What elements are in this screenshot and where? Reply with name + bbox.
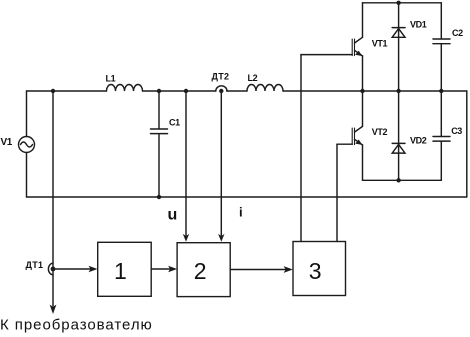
node top rail dot [396, 1, 400, 5]
svg-text:К преобразователю: К преобразователю [0, 317, 153, 334]
wire i sense line [220, 91, 222, 238]
svg-text:C2: C2 [452, 28, 463, 38]
svg-text:2: 2 [194, 258, 207, 284]
wire DT2 to L2 [227, 90, 247, 92]
wire tap line down to DT1 [52, 91, 54, 306]
arrow block 1 to block 2 [151, 268, 172, 270]
wire bottom rail [27, 196, 467, 198]
svg-text:L1: L1 [106, 74, 116, 84]
block 3 [293, 242, 346, 296]
node bottom rail dot [396, 178, 400, 182]
wire VT1 gate lead [301, 54, 352, 56]
svg-text:i: i [239, 205, 243, 220]
svg-text:L2: L2 [248, 73, 258, 83]
capacitor C3 [433, 91, 450, 180]
transistor VT2 (IGBT) [352, 91, 362, 180]
svg-text:VD2: VD2 [410, 135, 427, 145]
capacitor C1 [151, 91, 168, 197]
node capacitor midpoint dot [439, 89, 443, 93]
svg-text:u: u [168, 207, 178, 224]
svg-text:ДТ1: ДТ1 [26, 260, 44, 270]
svg-text:V1: V1 [1, 137, 13, 148]
wire midpoint line to right edge [363, 90, 467, 92]
node C1 top dot [157, 89, 161, 93]
arrowhead u into block 2 [183, 234, 189, 242]
node u-sense dot [184, 89, 188, 93]
current sensor DT1 [48, 263, 55, 275]
wire V1 top lead [26, 91, 28, 137]
svg-text:ДТ2: ДТ2 [212, 72, 230, 82]
inductor L1 [107, 85, 143, 91]
wire VT2 gate line down to block 3 [336, 144, 338, 241]
wire L2 to bridge midpoint [283, 90, 363, 92]
wire VT1 gate line down to block 3 [300, 55, 302, 242]
wire bridge top rail [363, 2, 442, 4]
inductor L2 [247, 85, 283, 91]
transistor VT1 (IGBT) [352, 3, 362, 91]
wire DT1 to block 1 with arrowhead [55, 268, 92, 270]
wire bridge bottom rail [363, 179, 442, 181]
svg-text:C1: C1 [169, 118, 180, 128]
arrow block 2 to block 3 [230, 269, 288, 271]
block 2 [177, 243, 230, 297]
wire u sense line [185, 91, 187, 238]
wire L1 to DT2 [143, 90, 216, 92]
source V1 [19, 137, 35, 153]
wire right edge down [466, 91, 468, 197]
wire top rail left [27, 90, 107, 92]
current sensor DT2 [216, 86, 227, 93]
svg-text:VT2: VT2 [372, 127, 388, 137]
block 1 [98, 242, 152, 296]
diode VD1 [392, 3, 405, 91]
node junction dot (tap to converter) [51, 89, 55, 93]
svg-text:VT1: VT1 [372, 38, 388, 48]
svg-text:1: 1 [114, 258, 127, 284]
svg-text:C3: C3 [451, 126, 462, 136]
capacitor C2 [433, 3, 450, 91]
node bridge midpoint dot [360, 89, 364, 93]
arrowhead i into block 2 [218, 234, 224, 242]
wire V1 bottom lead [26, 153, 28, 198]
wire VT2 gate lead [337, 143, 352, 145]
arrowhead to converter [50, 305, 57, 314]
node VD midpoint dot [396, 89, 400, 93]
node C1 bottom dot [157, 195, 161, 199]
svg-text:VD1: VD1 [410, 20, 427, 30]
diode VD2 [392, 91, 405, 180]
svg-text:3: 3 [309, 258, 322, 284]
